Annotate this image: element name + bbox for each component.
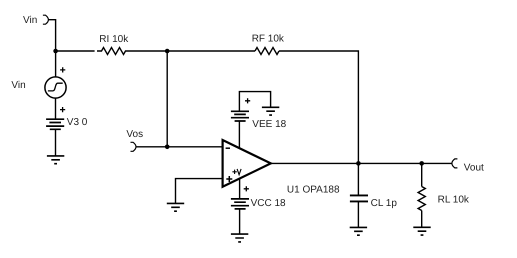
- wire RF right to output node: [279, 51, 358, 163]
- svg-text:Vin: Vin: [23, 15, 37, 26]
- ground under V3: [47, 156, 64, 164]
- wire input node to RI: [56, 50, 95, 52]
- wire VCC battery to ground: [239, 209, 241, 234]
- wire output node to RL: [421, 163, 423, 186]
- wire VEE battery to ground: [239, 92, 270, 112]
- node junction summing node top: [165, 49, 170, 54]
- node junction inverting input: [165, 145, 170, 150]
- svg-text:RF 10k: RF 10k: [252, 34, 285, 45]
- wire op-amp bottom supply pin to VCC battery: [239, 178, 241, 199]
- wire non-inverting input to ground: [176, 179, 223, 204]
- ground at VCC: [231, 234, 248, 242]
- ground at RL: [413, 227, 430, 235]
- node junction output at CL: [356, 161, 361, 166]
- ground at non-inverting input: [167, 203, 184, 211]
- capacitor CL: [350, 195, 368, 201]
- ground at CL: [350, 227, 367, 235]
- battery VEE: [231, 111, 249, 121]
- resistor RF: [255, 48, 279, 55]
- svg-text:Vin: Vin: [11, 80, 25, 91]
- voltage generator plus sign: [60, 67, 65, 72]
- port Vos symbol: [131, 142, 137, 151]
- svg-text:CL 1p: CL 1p: [371, 198, 398, 209]
- svg-text:V3 0: V3 0: [67, 117, 88, 128]
- voltage generator waveform symbol: [48, 83, 63, 91]
- battery V3: [46, 119, 64, 129]
- voltage generator Vin circle: [45, 77, 66, 98]
- svg-text:VEE 18: VEE 18: [252, 119, 286, 130]
- op-amp U1 triangle: [223, 140, 271, 187]
- wire battery V3 to ground: [55, 129, 57, 156]
- wire source to battery V3: [55, 98, 57, 119]
- svg-text:U1 OPA188: U1 OPA188: [287, 185, 340, 196]
- svg-text:Vos: Vos: [126, 129, 143, 140]
- port Vin symbol: [43, 15, 49, 24]
- svg-text:RL 10k: RL 10k: [438, 194, 470, 205]
- port Vout symbol: [452, 159, 458, 168]
- op-amp inverting input minus sign: [226, 147, 230, 149]
- op-amp internal +V supply marker: [232, 169, 241, 175]
- wire RL to ground: [421, 211, 423, 228]
- wire Vos port to inverting input: [136, 146, 223, 148]
- resistor RI: [97, 48, 130, 55]
- wire op-amp top supply pin to VEE battery: [238, 121, 240, 148]
- op-amp non-inverting input plus sign: [226, 176, 232, 182]
- svg-text:Vout: Vout: [464, 163, 484, 174]
- svg-text:RI 10k: RI 10k: [99, 34, 129, 45]
- svg-text:VCC 18: VCC 18: [251, 198, 286, 209]
- battery VCC: [231, 199, 249, 209]
- battery V3 plus sign: [60, 107, 65, 112]
- wire from Vin port to top corner and down to source: [48, 20, 55, 77]
- ground at VEE: [262, 107, 279, 115]
- battery VEE plus sign: [245, 98, 250, 103]
- node junction at input node: [53, 49, 58, 54]
- wire CL bottom plate to ground: [357, 201, 359, 227]
- battery VCC plus sign: [244, 186, 249, 191]
- wire op-amp output to Vout: [271, 162, 452, 164]
- wire output node to CL top plate: [357, 163, 359, 195]
- wire RI to summing node: [130, 50, 167, 52]
- node junction output at RL: [419, 161, 424, 166]
- wire summing node vertical: [166, 51, 168, 147]
- wire summing node to RF: [167, 50, 255, 52]
- resistor RL: [418, 187, 425, 211]
